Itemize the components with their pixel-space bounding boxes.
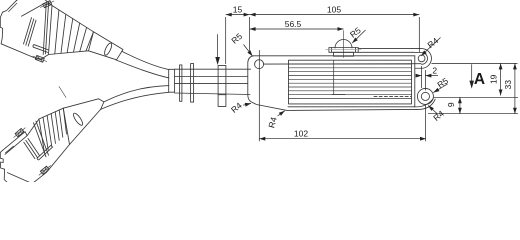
svg-text:19: 19 [489,74,499,84]
svg-text:15: 15 [233,5,243,15]
svg-text:9: 9 [446,102,456,107]
svg-text:102: 102 [294,129,308,139]
svg-text:56.5: 56.5 [285,19,302,29]
svg-text:2: 2 [432,66,437,76]
svg-text:A: A [474,71,485,88]
svg-text:105: 105 [327,5,341,15]
svg-text:33: 33 [503,80,513,90]
